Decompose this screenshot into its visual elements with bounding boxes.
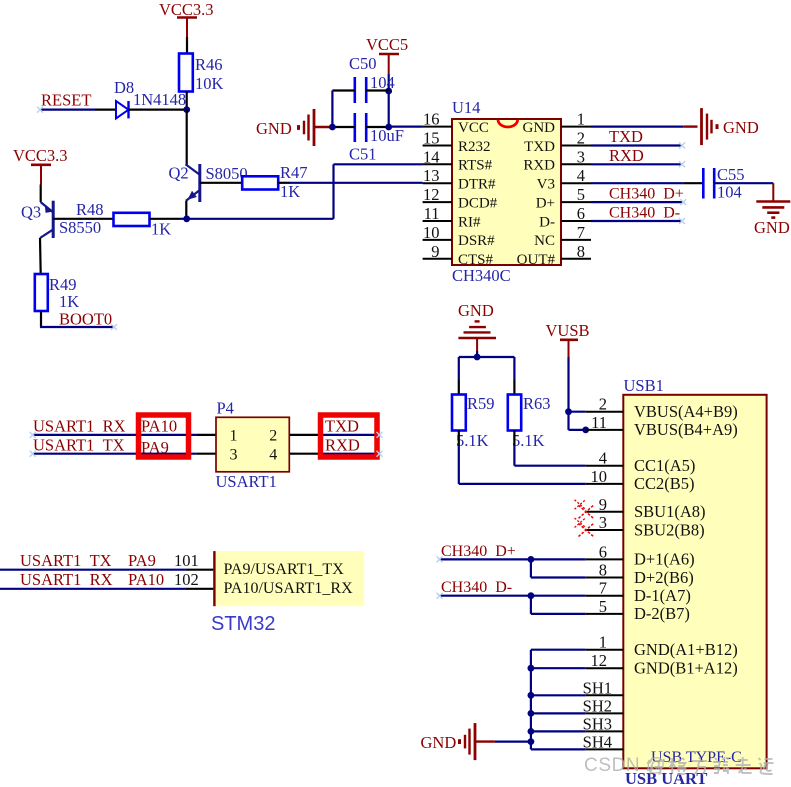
- svg-text:SH4: SH4: [583, 732, 612, 751]
- USB1 pin SH4: [583, 732, 624, 751]
- wire: [180, 218, 185, 220]
- wire to pin2: [569, 411, 586, 413]
- svg-text:R48: R48: [76, 200, 104, 219]
- wire P4 pin2: [290, 434, 321, 436]
- svg-text:SH2: SH2: [583, 696, 612, 715]
- svg-text:CH340 D-: CH340 D-: [441, 579, 512, 596]
- wire R47 right: [278, 182, 290, 184]
- wire CH340 D-: [591, 220, 682, 222]
- wire BOOT0: [40, 326, 114, 328]
- svg-text:CC2(B5): CC2(B5): [634, 474, 695, 493]
- svg-text:RI#: RI#: [458, 214, 481, 230]
- wire C51 right stub: [366, 126, 389, 128]
- wire to pin11: [569, 429, 586, 431]
- svg-text:USART1: USART1: [216, 472, 277, 491]
- svg-text:TXD: TXD: [325, 416, 359, 435]
- pin 101 stub: [185, 569, 213, 571]
- wire stem lower: [476, 351, 478, 357]
- wire node to Q2 collector: [186, 110, 188, 165]
- wire PA10: [0, 588, 185, 590]
- wire vertical to pin14 row: [332, 164, 334, 219]
- svg-text:CSDN @: CSDN @: [584, 755, 666, 776]
- svg-text:C55: C55: [717, 165, 745, 184]
- svg-text:STM32: STM32: [211, 613, 275, 635]
- svg-text:C51: C51: [349, 145, 377, 164]
- USB1 pin 11 VBUS(B4+A9): [586, 413, 738, 439]
- svg-text:CH340 D-: CH340 D-: [609, 205, 680, 222]
- wire C51 left stub: [332, 126, 354, 128]
- wire top rail: [459, 356, 515, 358]
- svg-text:GND: GND: [523, 120, 556, 136]
- wire end marker: [37, 107, 43, 113]
- U14 left pin 12 DCD#: [423, 185, 498, 211]
- watermark CSDN: [584, 755, 774, 776]
- wire RXD: [320, 453, 379, 455]
- U14 right pin 1 GND: [523, 110, 592, 136]
- svg-text:TXD: TXD: [609, 127, 643, 146]
- wire to R59: [458, 357, 460, 380]
- svg-text:R232: R232: [458, 139, 491, 155]
- wire VCC3.3 stem: [40, 165, 42, 185]
- svg-text:SBU1(A8): SBU1(A8): [634, 502, 706, 521]
- svg-text:R59: R59: [467, 394, 495, 413]
- wire R46 to node: [186, 92, 188, 110]
- svg-text:102: 102: [174, 570, 199, 589]
- svg-text:8: 8: [577, 242, 585, 261]
- svg-text:GND: GND: [723, 118, 759, 137]
- svg-text:PA10/USART1_RX: PA10/USART1_RX: [224, 580, 354, 597]
- svg-text:GND(A1+B12): GND(A1+B12): [634, 640, 738, 659]
- ground symbol near C50: [297, 109, 314, 146]
- wire R63 down: [513, 431, 515, 446]
- diode D8 1N4148: [116, 101, 129, 118]
- svg-text:USART1 TX: USART1 TX: [20, 551, 112, 570]
- wire C50 left stub: [332, 89, 354, 91]
- svg-text:9: 9: [431, 242, 439, 261]
- wire CH340 D- to pin7: [440, 595, 586, 597]
- svg-text:1K: 1K: [280, 182, 300, 201]
- svg-text:RTS#: RTS#: [458, 158, 493, 174]
- svg-text:3: 3: [599, 513, 607, 532]
- svg-text:5.1K: 5.1K: [512, 431, 545, 450]
- wire down to earth: [772, 183, 774, 201]
- svg-text:101: 101: [174, 551, 199, 570]
- svg-text:R63: R63: [523, 394, 551, 413]
- wire TXD: [320, 434, 379, 436]
- wire to U14 pin16: [389, 125, 423, 127]
- svg-text:P4: P4: [217, 398, 234, 417]
- wire Q3 collector to R49: [39, 238, 42, 274]
- wire GND bus vertical: [530, 650, 532, 750]
- wire pin4: [591, 182, 683, 184]
- svg-text:1N4148: 1N4148: [133, 90, 186, 109]
- svg-text:7: 7: [577, 223, 585, 242]
- svg-text:4: 4: [269, 446, 277, 463]
- resistor R63: [508, 395, 521, 431]
- USB1 pin SH2: [583, 696, 624, 715]
- junction GND rail: [474, 354, 481, 361]
- wire R59 down: [458, 431, 460, 446]
- wire PA9: [0, 569, 185, 571]
- svg-text:10: 10: [591, 467, 608, 486]
- inverted earth ground symbol: [458, 321, 496, 338]
- wire pin1 to GND: [591, 125, 683, 127]
- wire USART1 TX: [33, 453, 197, 455]
- svg-text:2: 2: [269, 428, 277, 445]
- svg-text:1K: 1K: [59, 292, 79, 311]
- wire to SH2: [531, 712, 586, 714]
- svg-text:GND(B1+A12): GND(B1+A12): [634, 659, 738, 678]
- junction RESET/R46/Q2: [183, 106, 190, 113]
- wire to Q3 emitter: [40, 185, 42, 203]
- svg-text:VUSB: VUSB: [546, 321, 590, 340]
- svg-text:USART1 TX: USART1 TX: [33, 435, 125, 454]
- svg-text:D+: D+: [536, 195, 555, 211]
- no-connect X at pin: [575, 500, 594, 519]
- wire end marker: [377, 451, 383, 457]
- junction Q2 emitter / R48: [183, 215, 190, 222]
- wire VCC5 stem: [388, 54, 390, 74]
- power symbol VCC3.3: [31, 164, 51, 167]
- svg-text:R47: R47: [280, 163, 308, 182]
- svg-text:V3: V3: [537, 177, 555, 193]
- svg-text:DSR#: DSR#: [458, 233, 495, 249]
- wire Q2 base to R47: [200, 182, 242, 184]
- wire R47 to U14 pin13: [290, 182, 423, 184]
- wire R59 to pin10 CC2: [459, 483, 586, 485]
- transistor Q3 S8550: [40, 201, 53, 238]
- svg-text:USB1: USB1: [624, 376, 664, 395]
- U14 left pin 10 DSR#: [423, 223, 496, 249]
- wire to U14 pin14: [334, 163, 423, 165]
- svg-text:4: 4: [599, 449, 607, 468]
- svg-text:6: 6: [599, 542, 607, 561]
- svg-text:D-: D-: [539, 214, 555, 230]
- wire CH340 D+: [591, 201, 683, 203]
- svg-text:CH340 D+: CH340 D+: [441, 543, 516, 560]
- U14 right pin 5 D+: [536, 185, 591, 211]
- wire VUSB stem: [568, 340, 570, 357]
- svg-text:NC: NC: [534, 233, 555, 249]
- wire emitter node right: [187, 218, 334, 220]
- svg-text:D+2(B6): D+2(B6): [634, 568, 694, 587]
- svg-text:VCC3.3: VCC3.3: [13, 146, 68, 165]
- USB1 pin 2 VBUS(A4+B9): [586, 395, 738, 421]
- svg-text:SH1: SH1: [583, 678, 612, 697]
- svg-text:16: 16: [423, 110, 440, 129]
- svg-text:2: 2: [599, 395, 607, 414]
- wire R49 to BOOT0: [40, 311, 42, 327]
- wire C55 right: [714, 182, 773, 184]
- wire USART1 RX: [33, 434, 197, 436]
- svg-text:1: 1: [230, 428, 238, 445]
- svg-text:5.1K: 5.1K: [456, 431, 489, 450]
- svg-text:5: 5: [599, 597, 607, 616]
- wire TXD: [591, 144, 682, 146]
- connector USB1 body: [623, 395, 766, 769]
- wire VCC5 down: [388, 74, 390, 91]
- svg-text:VBUS(A4+B9): VBUS(A4+B9): [634, 402, 738, 421]
- svg-text:GND: GND: [421, 733, 457, 752]
- wire left vertical: [331, 91, 333, 128]
- U14 right pin 4 V3: [537, 166, 591, 192]
- resistor R48: [114, 213, 150, 226]
- svg-text:11: 11: [591, 413, 607, 432]
- U14 right pin 2 TXD: [524, 129, 591, 155]
- ground symbol at U14 pin1: [702, 108, 719, 145]
- wire to D8 anode: [95, 108, 116, 110]
- power symbol VUSB: [560, 338, 578, 341]
- wire end marker: [680, 199, 686, 205]
- svg-text:12: 12: [591, 651, 608, 670]
- capacitor C55: [703, 168, 714, 199]
- svg-text:11: 11: [424, 204, 440, 223]
- svg-text:5: 5: [577, 185, 585, 204]
- USB1 pin SH1: [583, 678, 624, 697]
- wire end marker: [30, 451, 36, 457]
- svg-text:R46: R46: [195, 55, 223, 74]
- wire R63 to pin4 CC1: [514, 465, 585, 467]
- svg-text:GND: GND: [256, 119, 292, 138]
- wire R48 to node: [150, 218, 181, 220]
- junction VCC5/C50: [385, 88, 392, 95]
- junction VUSB/pin2: [565, 408, 572, 415]
- USB1 pin 8 D+2(B6): [586, 561, 694, 587]
- wire RESET: [40, 108, 95, 110]
- red highlight box PA10/PA9: [139, 415, 189, 457]
- svg-text:15: 15: [423, 129, 440, 148]
- capacitor C50: [355, 77, 366, 103]
- wire to pin5: [531, 613, 586, 615]
- svg-text:1: 1: [577, 110, 585, 129]
- svg-text:RXD: RXD: [325, 435, 360, 454]
- wire to pin12: [531, 667, 586, 669]
- no-connect X at pin: [575, 518, 594, 537]
- wire to pin8: [531, 576, 586, 578]
- U14 left pin 13 DTR#: [423, 166, 496, 192]
- wire down to pin8: [530, 559, 532, 577]
- svg-text:CTS#: CTS#: [458, 252, 494, 268]
- svg-text:7: 7: [599, 579, 607, 598]
- USB1 pin 1 GND(A1+B12): [586, 633, 738, 659]
- U14 left pin 15 R232: [423, 129, 491, 155]
- wire end marker: [377, 432, 383, 438]
- svg-text:SBU2(B8): SBU2(B8): [634, 520, 705, 539]
- svg-text:RXD: RXD: [523, 158, 555, 174]
- U14 left pin 11 RI#: [423, 204, 481, 230]
- wire end marker: [437, 556, 443, 562]
- svg-text:CH340 D+: CH340 D+: [609, 186, 684, 203]
- svg-text:RESET: RESET: [41, 91, 91, 110]
- wire to SH3: [531, 730, 586, 732]
- wire right vertical: [388, 91, 390, 127]
- svg-text:Q3: Q3: [21, 203, 41, 222]
- red highlight box TXD/RXD: [321, 415, 378, 457]
- svg-text:104: 104: [370, 73, 395, 92]
- svg-text:GND: GND: [458, 301, 494, 320]
- svg-text:C50: C50: [349, 54, 377, 73]
- wire to R46: [186, 37, 188, 54]
- junction pin11: [582, 427, 589, 434]
- ground symbol bottom: [458, 723, 475, 760]
- resistor R49: [35, 274, 48, 311]
- svg-text:1: 1: [599, 633, 607, 652]
- power symbol VCC5: [379, 53, 399, 56]
- wire VUSB down: [567, 357, 569, 430]
- svg-text:Q2: Q2: [169, 164, 189, 183]
- svg-text:DCD#: DCD#: [458, 195, 498, 211]
- U14 left pin 14 RTS#: [423, 147, 493, 173]
- junction D-: [528, 592, 535, 599]
- resistor R59: [452, 395, 466, 431]
- svg-text:104: 104: [717, 183, 742, 202]
- USB1 pin 4 CC1(A5): [586, 449, 696, 475]
- USB1 pin SH3: [583, 714, 624, 733]
- wire end marker: [30, 432, 36, 438]
- U14 left pin 9 CTS#: [423, 242, 494, 268]
- transistor Q2 S8050: [186, 164, 200, 202]
- svg-text:13: 13: [423, 166, 440, 185]
- IC STM32 partial body: [213, 551, 364, 606]
- svg-text:SH3: SH3: [583, 714, 612, 733]
- wire to C55: [683, 182, 703, 184]
- wire CH340 D+ to pin6: [440, 558, 586, 560]
- svg-text:14: 14: [423, 147, 440, 166]
- connector P4 body: [216, 417, 289, 472]
- wire to R63: [513, 357, 515, 380]
- pin 102 stub: [185, 588, 213, 590]
- svg-text:9: 9: [599, 495, 607, 514]
- junction GND/C51: [329, 124, 336, 131]
- svg-text:8: 8: [599, 561, 607, 580]
- svg-text:PA9: PA9: [128, 551, 156, 570]
- svg-text:OUT#: OUT#: [517, 252, 556, 268]
- svg-text:CH340C: CH340C: [452, 266, 511, 285]
- U14 right pin 7 NC: [534, 223, 591, 249]
- svg-text:3: 3: [230, 446, 238, 463]
- svg-text:RXD: RXD: [609, 146, 644, 165]
- svg-text:10K: 10K: [195, 74, 224, 93]
- earth ground below C55: [756, 202, 790, 218]
- svg-text:D-1(A7): D-1(A7): [634, 586, 691, 605]
- svg-text:U14: U14: [452, 98, 480, 117]
- svg-text:VBUS(B4+A9): VBUS(B4+A9): [634, 420, 738, 439]
- USB1 pin 3 SBU2(B8): [586, 513, 705, 539]
- wire RXD: [591, 163, 682, 165]
- wire to P4 pin3: [197, 453, 216, 455]
- svg-text:USART1 RX: USART1 RX: [20, 570, 113, 589]
- svg-text:10: 10: [423, 223, 440, 242]
- wire to P4 pin1: [197, 434, 216, 436]
- U14 notch: [498, 120, 518, 127]
- USB1 pin 5 D-2(B7): [586, 597, 690, 623]
- svg-text:2: 2: [577, 129, 585, 148]
- USB1 pin 9 SBU1(A8): [586, 495, 706, 521]
- junction C51/pin16 wire: [385, 124, 392, 131]
- wire VCC3.3 stem: [186, 18, 188, 38]
- resistor R46: [179, 54, 193, 92]
- svg-text:6: 6: [577, 204, 585, 223]
- wire to pin1: [531, 649, 586, 651]
- svg-text:D8: D8: [114, 78, 134, 97]
- wire end marker: [679, 161, 685, 167]
- wire GND stem: [476, 338, 478, 351]
- wire to SH1: [531, 694, 586, 696]
- wire C50 right stub: [366, 89, 389, 91]
- svg-text:DTR#: DTR#: [458, 177, 496, 193]
- wire end marker: [679, 218, 685, 224]
- IC U14 CH340C body: [452, 119, 561, 265]
- U14 left pin 16 VCC: [423, 110, 489, 136]
- wire end marker: [437, 593, 443, 599]
- svg-text:D-2(B7): D-2(B7): [634, 604, 690, 623]
- wire D8 cathode to node: [129, 108, 187, 110]
- power symbol VCC3.3: [177, 16, 197, 19]
- wire down to pin5: [530, 596, 532, 614]
- wire Q2 emitter down: [185, 201, 187, 219]
- svg-text:VCC3.3: VCC3.3: [159, 0, 214, 19]
- resistor R47: [242, 176, 278, 189]
- svg-text:USART1 RX: USART1 RX: [33, 416, 126, 435]
- svg-text:4: 4: [577, 166, 585, 185]
- wire end marker: [679, 143, 685, 149]
- USB1 pin 6 D+1(A6): [586, 542, 695, 568]
- svg-text:VCC: VCC: [458, 120, 489, 136]
- svg-text:PA10: PA10: [141, 416, 177, 435]
- U14 right pin 8 OUT#: [517, 242, 591, 268]
- svg-text:PA10: PA10: [128, 570, 164, 589]
- capacitor C51: [355, 113, 366, 142]
- wire GND to bus: [495, 740, 531, 742]
- junction D+: [528, 556, 535, 563]
- svg-text:D+1(A6): D+1(A6): [634, 550, 695, 569]
- svg-text:1K: 1K: [151, 220, 171, 239]
- P4 pin numbers: [230, 428, 278, 464]
- svg-text:GND: GND: [754, 218, 790, 237]
- wire Q3 base to R48: [53, 218, 113, 220]
- svg-text:S8550: S8550: [59, 218, 101, 237]
- svg-text:12: 12: [423, 185, 440, 204]
- U14 right pin 3 RXD: [523, 147, 591, 173]
- USB1 pin 10 CC2(B5): [586, 467, 695, 493]
- wire to SH4: [531, 748, 586, 750]
- wire P4 pin4: [290, 453, 321, 455]
- junction GND tap: [528, 738, 535, 745]
- svg-text:PA9/USART1_TX: PA9/USART1_TX: [224, 561, 345, 578]
- svg-text:TXD: TXD: [524, 139, 555, 155]
- svg-text:VCC5: VCC5: [366, 35, 408, 54]
- U14 right pin 6 D-: [539, 204, 591, 230]
- USB1 pin 7 D-1(A7): [586, 579, 691, 605]
- svg-text:BOOT0: BOOT0: [59, 310, 112, 329]
- svg-text:CC1(A5): CC1(A5): [634, 456, 695, 475]
- USB1 pin 12 GND(B1+A12): [586, 651, 738, 677]
- svg-text:3: 3: [577, 147, 585, 166]
- wire end marker: [111, 324, 117, 330]
